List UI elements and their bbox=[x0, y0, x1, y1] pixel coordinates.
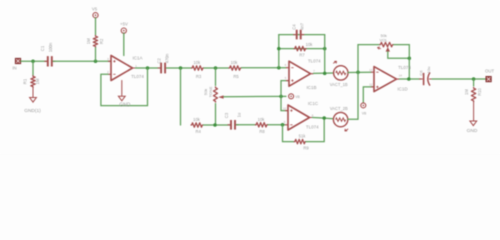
svg-text:IC1B: IC1B bbox=[306, 85, 316, 90]
svg-text:10k: 10k bbox=[231, 60, 239, 65]
wire C4 branch top bbox=[279, 34, 325, 36]
svg-text:TL074: TL074 bbox=[131, 74, 144, 79]
wire node Q down bbox=[473, 79, 475, 86]
svg-text:C2: C2 bbox=[156, 57, 161, 63]
svg-text:10k: 10k bbox=[258, 117, 266, 122]
wire VOL loop left bbox=[358, 45, 379, 73]
wire VB node up to IC1B in+ bbox=[281, 81, 288, 97]
supply VB2 bbox=[361, 103, 366, 108]
node P IC1D output bbox=[407, 77, 411, 81]
resistor R1 bbox=[31, 75, 35, 88]
wire IC1C feedback down bbox=[283, 125, 295, 142]
svg-text:1: 1 bbox=[135, 64, 137, 68]
wire IC1D output bbox=[400, 78, 422, 80]
svg-text:4n7: 4n7 bbox=[300, 22, 305, 30]
svg-text:13: 13 bbox=[369, 68, 373, 72]
potentiometer VACT_2B bbox=[333, 112, 347, 126]
node I summing IC1C bbox=[281, 123, 285, 127]
wire IN to node A bbox=[21, 60, 47, 62]
svg-text:VOL: VOL bbox=[379, 38, 388, 43]
svg-text:1M: 1M bbox=[86, 38, 91, 44]
svg-text:7: 7 bbox=[313, 69, 315, 73]
wire node E to tone pot bbox=[215, 68, 217, 86]
wire IC1A feedback loop bbox=[101, 68, 148, 106]
wire R10 to ground bbox=[473, 102, 475, 121]
svg-text:3: 3 bbox=[107, 57, 109, 61]
svg-text:TONE: TONE bbox=[208, 86, 213, 97]
resistor R4 bbox=[191, 123, 204, 127]
svg-text:R8: R8 bbox=[259, 129, 265, 134]
node G VB junction bbox=[279, 95, 283, 99]
resistor R7 bbox=[294, 46, 307, 50]
wire IC1D in+ to VB bbox=[363, 87, 374, 103]
op-amp IC1D bbox=[374, 67, 397, 92]
svg-text:5: 5 bbox=[285, 76, 287, 80]
wire R3 to R5 bbox=[204, 67, 229, 69]
wire +5V to IC1A V+ bbox=[123, 33, 125, 55]
svg-text:12: 12 bbox=[369, 82, 373, 86]
svg-text:10u: 10u bbox=[426, 67, 431, 74]
ground under R10 bbox=[470, 121, 477, 126]
node N summing IC1D bbox=[356, 70, 360, 74]
wire C3 to R8 bbox=[236, 124, 255, 126]
svg-text:R3: R3 bbox=[196, 74, 202, 79]
node D junction bbox=[179, 66, 183, 70]
svg-text:100n: 100n bbox=[48, 42, 53, 52]
wire IC1A V- to ground bbox=[121, 81, 123, 97]
capacitor C1 bbox=[44, 56, 55, 66]
resistor R5 bbox=[229, 66, 242, 70]
svg-text:9: 9 bbox=[284, 120, 286, 124]
wire VOL wiper down bbox=[388, 52, 410, 59]
svg-text:10: 10 bbox=[283, 107, 287, 111]
node A junction bbox=[31, 60, 35, 64]
svg-text:1u: 1u bbox=[237, 112, 242, 117]
op-amp IC1B bbox=[289, 61, 311, 86]
svg-text:R4: R4 bbox=[196, 129, 202, 134]
svg-text:+5V: +5V bbox=[120, 22, 128, 27]
svg-text:IC1A: IC1A bbox=[132, 56, 142, 61]
op-amp IC1C bbox=[288, 105, 310, 130]
node H tone bottom bbox=[213, 123, 217, 127]
potentiometer VACT_1B bbox=[334, 66, 348, 80]
potentiometer VOL 50k bbox=[379, 42, 394, 46]
svg-text:V5: V5 bbox=[92, 6, 98, 11]
svg-text:R1: R1 bbox=[23, 78, 28, 84]
wire node A down to R1 bbox=[32, 61, 34, 75]
wire IC1C output to pot2 bbox=[313, 118, 334, 119]
wire node D vertical bbox=[180, 68, 182, 125]
wire R8 to IC1C in- bbox=[268, 124, 285, 126]
svg-text:14: 14 bbox=[399, 74, 403, 78]
capacitor C6 polarized bbox=[419, 73, 433, 86]
connector IN pad bbox=[15, 58, 20, 63]
ground under IC1A bbox=[118, 96, 125, 101]
node C output IC1A bbox=[146, 66, 150, 70]
connector OUT pad bbox=[486, 76, 491, 81]
node J R7 left bbox=[277, 47, 281, 51]
VOL wiper arrow bbox=[386, 47, 390, 52]
svg-text:GND: GND bbox=[119, 103, 131, 109]
capacitor C4 bbox=[293, 30, 304, 40]
supply V5 bbox=[93, 13, 98, 18]
svg-text:IC1C: IC1C bbox=[308, 101, 319, 106]
node B junction R2 bbox=[94, 60, 98, 64]
svg-text:GND: GND bbox=[467, 128, 478, 134]
svg-text:51k: 51k bbox=[299, 133, 307, 138]
svg-text:TL074: TL074 bbox=[308, 59, 321, 64]
svg-text:10k: 10k bbox=[306, 42, 314, 47]
supply VB1 bbox=[289, 94, 294, 99]
svg-text:VB: VB bbox=[295, 95, 300, 99]
svg-text:OUT: OUT bbox=[485, 68, 494, 73]
wire V5 to R2 bbox=[95, 18, 97, 35]
svg-text:2: 2 bbox=[107, 70, 109, 74]
node F summing IC1B bbox=[277, 66, 281, 70]
wire tone wiper to VB node bbox=[224, 95, 286, 97]
wire pot1 right to node N bbox=[348, 71, 371, 73]
pot2 wiper mark bbox=[345, 129, 348, 131]
svg-text:IC1D: IC1D bbox=[397, 87, 408, 92]
svg-text:R2: R2 bbox=[99, 38, 104, 44]
wire VOL loop right bbox=[394, 45, 410, 79]
svg-text:C1: C1 bbox=[40, 45, 45, 51]
resistor R9 bbox=[294, 139, 307, 143]
node M IC1C output bbox=[322, 116, 326, 120]
ground GND(1) symbol bbox=[30, 98, 37, 103]
svg-text:6: 6 bbox=[285, 63, 287, 67]
wire C6 to OUT bbox=[432, 78, 486, 80]
supply +5V bbox=[121, 28, 126, 33]
svg-text:GND(1): GND(1) bbox=[24, 108, 41, 114]
resistor R3 bbox=[191, 66, 204, 70]
wire C1 to op-amp IC1A input bbox=[53, 60, 111, 62]
node O wiper tap bbox=[408, 56, 412, 60]
resistor R2 bbox=[93, 35, 97, 48]
pot1 wiper mark bbox=[333, 61, 336, 63]
svg-text:C4: C4 bbox=[291, 24, 296, 30]
capacitor C2 bbox=[158, 63, 169, 74]
resistor R8 bbox=[255, 123, 268, 127]
tone pot wiper arrow bbox=[218, 95, 223, 98]
svg-text:1M: 1M bbox=[464, 89, 469, 95]
potentiometer TONE 50k bbox=[214, 87, 218, 103]
wire R9 to output vertical bbox=[306, 118, 324, 142]
wire IC1A output bbox=[136, 67, 161, 69]
svg-text:R9: R9 bbox=[303, 145, 309, 150]
svg-text:VACT_2B: VACT_2B bbox=[330, 106, 348, 111]
node L IC1B output bbox=[323, 72, 327, 76]
wire IC1B feedback left vertical bbox=[278, 35, 280, 68]
svg-text:R5: R5 bbox=[233, 74, 239, 79]
wire R1 to ground bbox=[32, 88, 34, 98]
op-amp IC1A bbox=[111, 56, 133, 81]
node E junction tone top bbox=[214, 66, 218, 70]
node Q output junction bbox=[472, 77, 476, 81]
svg-text:C3: C3 bbox=[224, 112, 229, 118]
wire R7 branch bbox=[279, 48, 325, 50]
wire tone pot bottom bbox=[215, 104, 217, 126]
capacitor C3 bbox=[228, 120, 239, 130]
svg-text:R7: R7 bbox=[299, 53, 305, 58]
svg-text:1M: 1M bbox=[35, 78, 40, 84]
wire C2 to node D bbox=[167, 67, 191, 69]
svg-text:VACT_1B: VACT_1B bbox=[330, 82, 348, 87]
wire IC1B output to pot bbox=[314, 72, 334, 74]
wire VB node down to IC1C in+ bbox=[281, 96, 287, 110]
svg-text:TL074: TL074 bbox=[306, 124, 319, 129]
resistor R10 bbox=[471, 87, 475, 102]
node K R7 right bbox=[323, 47, 327, 51]
wire R2 to node B bbox=[95, 48, 97, 62]
wire R4 to C3 bbox=[204, 124, 232, 126]
svg-text:R10: R10 bbox=[477, 88, 482, 96]
wire pot2 right up to node N bbox=[348, 72, 358, 119]
svg-text:VB: VB bbox=[362, 111, 367, 115]
wire R5 to IC1B in- bbox=[242, 67, 287, 69]
svg-text:10k: 10k bbox=[193, 117, 201, 122]
svg-text:8: 8 bbox=[312, 113, 314, 117]
wire IC1B feedback right vertical bbox=[324, 35, 326, 74]
svg-text:10k: 10k bbox=[193, 60, 201, 65]
svg-text:TL074: TL074 bbox=[398, 65, 411, 70]
svg-text:470n: 470n bbox=[165, 53, 170, 63]
svg-text:IN: IN bbox=[12, 66, 16, 71]
svg-text:C6: C6 bbox=[419, 70, 424, 76]
